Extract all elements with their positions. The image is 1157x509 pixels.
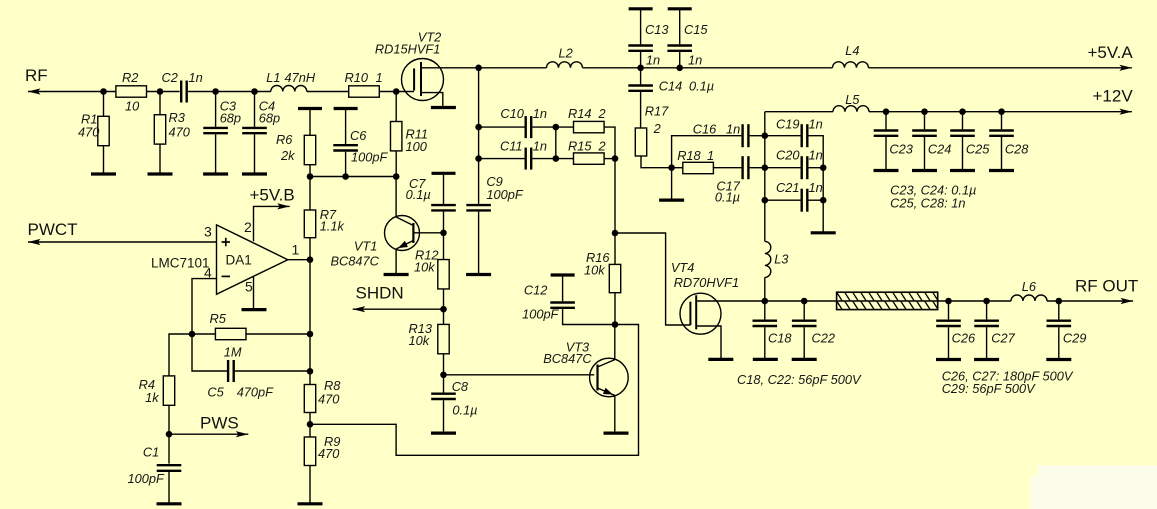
ground [912, 169, 937, 172]
ground [874, 169, 899, 172]
svg-text:470: 470 [169, 125, 191, 140]
ground [811, 231, 836, 234]
wire +12V rail [765, 109, 1132, 115]
wire [168, 405, 170, 434]
svg-text:C6: C6 [350, 128, 367, 143]
resistor R11 [391, 122, 429, 155]
wire [345, 109, 347, 145]
svg-text:C18: C18 [768, 331, 792, 346]
wire [1001, 137, 1003, 171]
capacitor C19 [776, 117, 823, 148]
node PWS [166, 431, 173, 438]
wire [188, 91, 271, 93]
wire [159, 92, 161, 115]
node [475, 65, 482, 72]
wire [215, 134, 217, 174]
wire [803, 301, 805, 320]
wire output column x=310 [309, 260, 311, 385]
node [100, 88, 107, 95]
node [157, 88, 164, 95]
node [883, 108, 890, 115]
node [668, 164, 675, 171]
svg-text:C16: C16 [693, 122, 717, 137]
inductor L6 [1011, 279, 1047, 301]
capacitor C2 [162, 70, 203, 103]
capacitor C9 [466, 174, 524, 210]
svg-text:BC847C: BC847C [543, 351, 592, 366]
svg-text:2: 2 [598, 139, 606, 154]
node C26 [945, 298, 952, 305]
wire VT2 drain [421, 67, 479, 69]
resistor R6 [276, 132, 316, 165]
svg-text:VT1: VT1 [354, 239, 377, 254]
svg-text:1n: 1n [189, 70, 203, 85]
svg-text:L3: L3 [774, 252, 788, 267]
svg-text:C18, C22: 56pF 500V: C18, C22: 56pF 500V [737, 372, 862, 387]
svg-text:1n: 1n [646, 53, 660, 68]
ground C22 [792, 358, 817, 361]
terminal bar above C12 [551, 273, 575, 276]
svg-text:L2: L2 [559, 46, 573, 61]
node [307, 173, 314, 180]
svg-text:2k: 2k [280, 148, 295, 163]
ground C9 [466, 273, 491, 276]
svg-text:C20: C20 [776, 148, 800, 163]
svg-text:L4: L4 [845, 43, 859, 58]
ground VT2 source [431, 106, 456, 109]
wire [808, 199, 823, 201]
capacitor C14 [628, 79, 714, 94]
wire [808, 136, 823, 233]
wire [395, 92, 397, 123]
wire [192, 334, 227, 371]
svg-text:R18: R18 [677, 148, 701, 163]
wire [1058, 301, 1060, 320]
node [553, 155, 560, 162]
svg-text:1: 1 [292, 242, 300, 258]
node R16 bottom [612, 321, 619, 328]
svg-text:C8: C8 [452, 379, 469, 394]
wire [168, 434, 170, 463]
svg-text:R3: R3 [169, 110, 185, 125]
wire [640, 92, 642, 128]
node [393, 173, 400, 180]
svg-text:C1: C1 [143, 445, 159, 460]
wire [1058, 327, 1060, 359]
wire [443, 375, 445, 393]
capacitor C5 [207, 360, 274, 400]
wire [765, 199, 801, 201]
wire [765, 135, 801, 137]
svg-text:0.1µ: 0.1µ [715, 190, 740, 205]
svg-text:L6: L6 [1022, 279, 1037, 294]
svg-text:LMC7101: LMC7101 [151, 256, 210, 271]
wire VT4 drain [696, 300, 765, 302]
wire output line to stripline [765, 300, 837, 302]
wire [672, 167, 684, 169]
svg-text:C27: C27 [991, 331, 1015, 346]
svg-text:C13: C13 [645, 22, 668, 37]
svg-text:+5V.A: +5V.A [1088, 43, 1134, 62]
resistor R15 [568, 139, 606, 165]
wire [948, 301, 950, 320]
svg-text:470: 470 [78, 125, 100, 140]
wire VT3 emitter to ground [614, 396, 616, 433]
svg-text:47nH: 47nH [285, 70, 316, 85]
node [342, 173, 349, 180]
wire vertical bus below VT2 drain [478, 68, 480, 159]
wire [309, 165, 311, 177]
svg-text:R6: R6 [276, 132, 293, 147]
ground C8 [431, 432, 456, 435]
wire [443, 233, 445, 260]
svg-text:C25: C25 [966, 142, 990, 157]
port RF input [25, 66, 48, 85]
svg-text:C5: C5 [207, 385, 224, 400]
node C22 [801, 298, 808, 305]
terminal bar above R6 [298, 107, 322, 110]
wire [443, 289, 445, 325]
svg-text:1n: 1n [688, 53, 702, 68]
wire [614, 293, 616, 325]
svg-text:2: 2 [598, 106, 606, 121]
wire [764, 301, 766, 320]
wire [379, 91, 414, 93]
capacitor C11 [500, 139, 547, 170]
resistor R17 [635, 104, 669, 157]
svg-text:R10: R10 [345, 70, 369, 85]
ground [659, 199, 684, 202]
capacitor C29 [1047, 321, 1087, 346]
value note C18 C22 [737, 372, 862, 387]
node feedback left [189, 331, 196, 338]
port PWCT [28, 220, 78, 239]
node [762, 132, 769, 139]
stripline hatched section [829, 292, 947, 309]
capacitor C18 [753, 321, 793, 346]
node [553, 124, 560, 131]
wire [556, 158, 574, 160]
node op-amp output [307, 256, 314, 263]
wire [962, 112, 964, 130]
wire [443, 400, 445, 433]
resistor R4 [139, 376, 175, 405]
wire PWS line with arrow [169, 431, 248, 437]
ground op-amp pin 5 [242, 308, 267, 311]
ground R9 [298, 502, 323, 505]
wire [103, 146, 105, 174]
node [959, 108, 966, 115]
svg-text:L5: L5 [845, 92, 860, 107]
resistor R12 [414, 248, 449, 289]
node C18 [762, 298, 769, 305]
svg-text:C24: C24 [928, 142, 951, 157]
ground C27 [974, 358, 999, 361]
resistor R8 [304, 378, 341, 413]
svg-text:+12V: +12V [1093, 87, 1134, 106]
node [212, 88, 219, 95]
wire R15 node to VT4 gate [615, 233, 690, 325]
transistor VT3 [543, 340, 628, 397]
node VT2 gate [393, 88, 400, 95]
capacitor C15 [667, 22, 708, 68]
svg-text:1n: 1n [533, 139, 547, 154]
ground C1 [157, 502, 182, 505]
wire VT2 source to ground [421, 93, 443, 108]
wire [532, 126, 555, 128]
svg-text:C21: C21 [776, 180, 799, 195]
node [921, 108, 928, 115]
wire [192, 333, 216, 335]
resistor R10 [345, 70, 383, 97]
svg-text:100pF: 100pF [486, 187, 523, 202]
transistor VT2 [375, 30, 444, 101]
resistor R3 [154, 110, 190, 144]
wire [309, 466, 311, 504]
svg-text:RF: RF [25, 66, 48, 85]
wire [159, 144, 161, 174]
svg-text:R14: R14 [568, 106, 591, 121]
capacitor C13 [628, 22, 668, 68]
inductor L1 [266, 70, 316, 92]
wire [764, 277, 766, 301]
svg-text:C22: C22 [812, 331, 835, 346]
capacitor C6 [333, 128, 388, 165]
wire [245, 333, 310, 335]
node [637, 65, 644, 72]
resistor R16 [584, 250, 621, 293]
transistor VT4 [671, 260, 739, 334]
inductor L5 [833, 92, 869, 112]
svg-text:PWS: PWS [200, 414, 239, 433]
ground [203, 172, 228, 175]
svg-text:10: 10 [125, 99, 140, 114]
value note C29 [942, 381, 1036, 396]
capacitor C21 [776, 180, 823, 212]
svg-text:SHDN: SHDN [356, 284, 404, 303]
ground C26 [936, 358, 961, 361]
svg-text:1n: 1n [726, 122, 740, 137]
wire [640, 68, 642, 85]
node [676, 65, 683, 72]
node C27 [983, 298, 990, 305]
wire [307, 91, 349, 93]
wire [750, 135, 765, 137]
svg-text:C29: C29 [1063, 331, 1086, 346]
wire [640, 9, 642, 45]
svg-text:RD70HVF1: RD70HVF1 [674, 275, 739, 290]
svg-text:1n: 1n [809, 148, 823, 163]
wire [962, 137, 964, 171]
node [820, 197, 827, 204]
ground VT1 emitter [384, 273, 409, 276]
wire +5V.A rail [479, 65, 1132, 71]
svg-text:C28: C28 [1005, 142, 1029, 157]
node [251, 88, 258, 95]
node SHDN [440, 306, 447, 313]
wire [765, 167, 801, 169]
resistor R1 [78, 112, 109, 146]
resistor R9 [304, 434, 340, 466]
wire [764, 327, 766, 359]
resistor R7 [304, 207, 344, 238]
svg-text:R15: R15 [568, 139, 592, 154]
wire [235, 370, 310, 372]
svg-text:0.1µ: 0.1µ [452, 403, 477, 418]
wire [309, 177, 311, 211]
wire [562, 275, 564, 301]
svg-text:1n: 1n [533, 106, 547, 121]
svg-text:C2: C2 [162, 70, 178, 85]
capacitor C24 [912, 131, 951, 157]
wire [443, 212, 445, 233]
wire [803, 327, 805, 359]
svg-text:1n: 1n [809, 180, 823, 195]
svg-text:10k: 10k [414, 260, 435, 275]
svg-text:0.1µ: 0.1µ [689, 79, 714, 94]
capacitor C10 [500, 106, 547, 138]
svg-text:C10: C10 [500, 106, 524, 121]
wire [986, 327, 988, 359]
resistor R14 [568, 106, 606, 133]
svg-text:C12: C12 [524, 283, 547, 298]
wire [309, 413, 311, 438]
svg-text:1M: 1M [224, 345, 242, 360]
svg-text:1: 1 [707, 148, 714, 163]
wire op-amp output pin 1 [288, 259, 310, 261]
node [612, 230, 619, 237]
wire [679, 52, 681, 68]
svg-text:10k: 10k [409, 333, 430, 348]
svg-text:C23: C23 [889, 142, 912, 157]
svg-text:DA1: DA1 [226, 253, 252, 268]
svg-text:BC847C: BC847C [331, 254, 380, 269]
svg-text:+5V.B: +5V.B [250, 186, 295, 205]
svg-text:100pF: 100pF [522, 307, 559, 322]
capacitor C28 [989, 131, 1029, 157]
wire [885, 137, 887, 171]
wire [147, 91, 180, 93]
wire [345, 152, 347, 177]
svg-text:C25, C28: 1n: C25, C28: 1n [890, 196, 965, 211]
port +5V.B [250, 186, 295, 205]
svg-text:R17: R17 [645, 104, 669, 119]
svg-text:100pF: 100pF [351, 150, 388, 165]
wire [640, 52, 642, 68]
capacitor C25 [950, 131, 990, 157]
resistor R18 [677, 148, 714, 174]
node [998, 108, 1005, 115]
svg-text:RF OUT: RF OUT [1075, 277, 1138, 296]
inductor L2 [547, 46, 583, 68]
transistor VT1 [331, 216, 420, 269]
wire [254, 92, 256, 127]
svg-text:R2: R2 [122, 70, 138, 85]
svg-text:C11: C11 [500, 139, 523, 154]
value note C26 C27 [942, 369, 1074, 384]
svg-text:PWCT: PWCT [28, 220, 78, 239]
svg-text:68p: 68p [259, 111, 280, 126]
svg-text:RD15HVF1: RD15HVF1 [375, 42, 440, 57]
wire [679, 9, 681, 45]
wire [604, 127, 615, 264]
wire [948, 327, 950, 359]
wire [309, 109, 311, 136]
wire VT3 base line [444, 374, 595, 376]
svg-text:1: 1 [376, 70, 383, 85]
wire [254, 134, 256, 174]
svg-text:C15: C15 [684, 22, 708, 37]
capacitor C8 [431, 379, 477, 418]
wire [672, 136, 742, 168]
node [762, 197, 769, 204]
wire [641, 156, 672, 168]
terminal bar above C6 [334, 107, 358, 110]
node [820, 164, 827, 171]
capacitor C17 [715, 156, 749, 204]
wire [309, 238, 311, 260]
resistor R2 [116, 70, 147, 114]
wire [215, 92, 217, 127]
node [475, 155, 482, 162]
svg-text:1.1k: 1.1k [320, 219, 345, 234]
svg-text:3: 3 [204, 224, 212, 240]
svg-text:470pF: 470pF [237, 385, 274, 400]
capacitor C3 [203, 98, 241, 133]
value note C25 C28 [890, 196, 965, 211]
wire [885, 112, 887, 130]
node [762, 164, 769, 171]
ground [242, 172, 267, 175]
wire op-amp pin 2 to +5V.B arrow [254, 203, 290, 241]
wire [103, 92, 105, 117]
svg-text:1k: 1k [145, 390, 159, 405]
capacitor C22 [792, 321, 835, 346]
wire [479, 126, 525, 128]
capacitor C12 [522, 283, 575, 322]
svg-text:470: 470 [318, 446, 340, 461]
wire [604, 158, 615, 160]
wire [1001, 112, 1003, 130]
svg-text:R5: R5 [210, 311, 227, 326]
wire [555, 127, 557, 159]
svg-text:2: 2 [653, 121, 661, 136]
terminal bar above C15 [668, 7, 692, 10]
wire [808, 167, 823, 169]
svg-text:C14: C14 [659, 79, 682, 94]
node C8 [440, 372, 447, 379]
svg-text:VT4: VT4 [671, 260, 694, 275]
wire VT1 emitter to ground [395, 249, 397, 274]
wire [750, 167, 765, 169]
capacitor C26 [936, 321, 976, 346]
capacitor C16 [693, 122, 749, 148]
wire op-amp pin 4 feedback [192, 279, 217, 334]
capacitor C20 [776, 148, 823, 180]
ground C29 [1046, 358, 1071, 361]
wire [986, 301, 988, 320]
wire [713, 167, 742, 169]
wire [478, 159, 480, 204]
wire [169, 334, 192, 376]
svg-text:10k: 10k [584, 263, 605, 278]
inductor L3 [765, 241, 789, 277]
node C5 right [307, 368, 314, 375]
wire VT3 collector [614, 325, 616, 360]
wire [443, 173, 445, 204]
ground [989, 169, 1014, 172]
wire VT4 source to ground [696, 326, 721, 359]
